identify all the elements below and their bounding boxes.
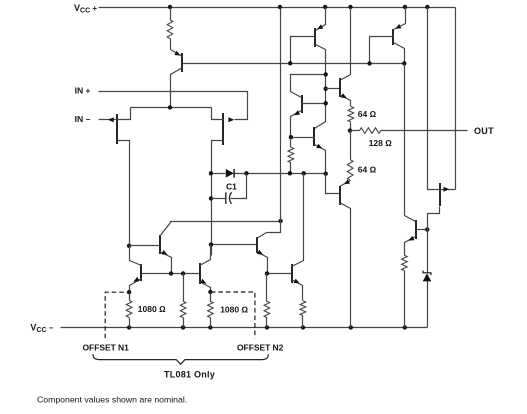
wire Q4 emitter to resistor R5	[290, 138, 292, 148]
transistor Q11 (NPN mirror left)	[130, 246, 200, 293]
transistor Q7 (NPN sink)	[292, 174, 304, 301]
node second-stage input junctions	[209, 171, 213, 175]
transistor Q1 (PNP current source)	[171, 50, 183, 108]
resistor R1	[167, 20, 173, 39]
svg-text:1080 Ω: 1080 Ω	[220, 304, 248, 314]
wire VCC+ column to Q3 collector	[267, 8, 281, 233]
wire VCC+ rail to resistor R1	[170, 8, 172, 20]
node Q5 collector column junctions	[324, 72, 328, 76]
wire OFFSET N2 dashed box	[211, 292, 255, 338]
transistor Q12 (NPN mirror right)	[200, 245, 211, 293]
diode D2 (zener)	[423, 271, 431, 276]
wire R1 to Q1 emitter	[170, 39, 172, 50]
wire R6 to rail	[129, 318, 131, 328]
wire Q1 base bias line to right mirror	[183, 63, 405, 65]
wire Q9 base link	[326, 88, 340, 90]
svg-text:64 Ω: 64 Ω	[358, 109, 377, 119]
wire R7 to rail	[183, 318, 185, 328]
svg-text:Component values shown are nom: Component values shown are nominal.	[37, 395, 187, 405]
node Q4 emitter junction	[289, 135, 293, 139]
wire Q11 emitter to resistor R6	[129, 293, 131, 301]
wire compensation row	[212, 173, 226, 175]
wire R5 to node	[290, 163, 292, 174]
pin J2 gate arrow	[228, 117, 234, 122]
wire mirror base node to resistor R7	[183, 274, 185, 302]
svg-text:IN +: IN +	[75, 86, 91, 96]
node Q3 base junction	[209, 242, 213, 246]
wire R11 to rail	[404, 271, 406, 328]
resistor R3 (128 ohm)	[360, 128, 381, 134]
svg-text:VCC +: VCC +	[74, 3, 97, 15]
wire zener to rail corner	[427, 282, 429, 328]
pin J3 gate arrow	[444, 187, 450, 192]
resistor R6 (1080 ohm)	[126, 300, 132, 317]
wire Q3 emitter node to resistor R9	[266, 274, 268, 302]
node compensation line junctions	[288, 171, 292, 175]
node offset emitter junctions	[127, 290, 131, 294]
wire VCC- bottom rail	[61, 327, 428, 329]
wire C1 right branch	[231, 174, 247, 199]
transistor Q3 (NPN cascode B)	[212, 233, 268, 274]
node VCC- rail junctions	[127, 325, 407, 329]
JFET J1 (inverting input)	[110, 108, 131, 246]
wire C1 left plate to drain line	[212, 198, 226, 200]
diode D1	[226, 169, 234, 178]
wire common-source line	[131, 107, 212, 109]
wire Q13 base node to zener	[427, 230, 429, 273]
wire IN- lead with gate arrow	[99, 119, 114, 121]
resistor R7	[180, 301, 186, 317]
brace TL081 Only	[93, 354, 268, 364]
node Q13 base junction	[425, 227, 429, 231]
wire VCC+ top rail	[99, 7, 456, 9]
wire Q9 emitter to resistor R2	[348, 107, 354, 123]
wire R2 to OUT node	[350, 123, 352, 131]
wire Q3 emitter node to Q7 base	[268, 273, 292, 275]
JFET J3 (output bias)	[428, 8, 456, 230]
wire OUT node down to resistor R4	[350, 131, 352, 160]
resistor R11	[402, 255, 408, 270]
transistor Q13 (NPN output)	[405, 64, 428, 256]
transistor Q6 (PNP diode-connected)	[370, 8, 406, 64]
transistor Q9 (NPN)	[340, 8, 351, 107]
wire Q12 emitter to resistor R8	[210, 293, 212, 302]
wire OFFSET N1 dashed box	[105, 292, 128, 338]
transistor Q4 (NPN mirrored)	[291, 75, 326, 138]
wire D1 cathode to node	[235, 173, 326, 175]
node cascode collector junction	[278, 219, 282, 223]
svg-text:OFFSET N1: OFFSET N1	[83, 342, 130, 352]
transistor Q5 (PNP)	[291, 8, 326, 129]
svg-text:128 Ω: 128 Ω	[369, 138, 393, 148]
svg-text:OFFSET N2: OFFSET N2	[237, 342, 284, 352]
resistor R4	[347, 160, 353, 181]
wire R10 to rail	[302, 316, 304, 328]
svg-text:C1: C1	[226, 181, 237, 191]
capacitor C1	[225, 192, 227, 204]
svg-text:TL081 Only: TL081 Only	[164, 370, 215, 380]
node Q3 emitter junction	[265, 271, 269, 275]
wire R8 to rail	[210, 318, 212, 328]
node bias line junctions	[288, 61, 292, 65]
svg-text:VCC −: VCC −	[30, 322, 53, 334]
resistor R8 (1080 ohm)	[208, 301, 214, 317]
svg-text:64 Ω: 64 Ω	[358, 164, 377, 174]
resistor R9	[264, 301, 270, 317]
node OUT resistor junction	[348, 128, 352, 132]
resistor R10	[300, 301, 306, 316]
node D1/C1 junction	[244, 171, 248, 175]
transistor Q10 (PNP output driver)	[326, 174, 351, 328]
transistor Q8 (NPN)	[291, 127, 326, 174]
node VCC+ rail junctions	[168, 5, 430, 9]
svg-text:1080 Ω: 1080 Ω	[138, 304, 166, 314]
wire R9 to rail	[266, 318, 268, 328]
resistor R5	[288, 147, 294, 163]
svg-text:IN −: IN −	[75, 114, 91, 124]
node IN+ label and wire	[99, 92, 248, 120]
node first-stage output junction	[127, 244, 131, 248]
JFET J2 (noninverting input)	[212, 108, 224, 256]
wire OUT node to R3	[351, 130, 360, 132]
svg-text:OUT: OUT	[474, 126, 494, 136]
node mirror base junctions	[169, 271, 173, 275]
transistor Q2 (NPN cascode A)	[130, 222, 281, 274]
node tail junction	[168, 105, 172, 109]
wire R3 to OUT terminal	[381, 130, 468, 132]
